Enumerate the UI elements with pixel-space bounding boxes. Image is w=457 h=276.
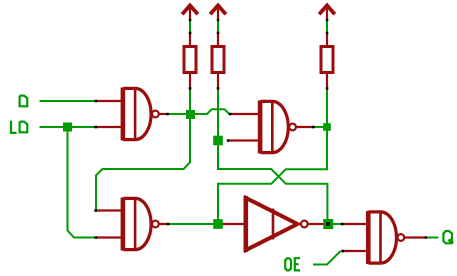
- pin-end dot U2 inB: [227, 139, 230, 142]
- pin-end dot VCC2 stem: [217, 19, 220, 22]
- node junction D (buffer out / U4 in): [323, 219, 333, 229]
- pin-end dot inside junction D: [326, 222, 330, 226]
- wire net A hop over net C to U2 input A: [190, 109, 229, 114]
- pin-end dot U2 inA: [229, 113, 232, 116]
- node junction F (U2 out / R3): [323, 123, 331, 131]
- pin-end dot U1 out: [166, 113, 169, 116]
- pin-end dot R1 bottom: [189, 87, 192, 90]
- power VCC arrow 3: [319, 5, 335, 19]
- resistor R3: [321, 47, 333, 73]
- pin-end dot U4 inB: [341, 250, 344, 253]
- pin U1 output: [159, 113, 167, 115]
- pin-end dot U3 out: [167, 223, 170, 226]
- power VCC arrow 1: [182, 5, 198, 19]
- pin R1 bottom: [189, 74, 191, 89]
- node junction on LD net: [63, 123, 72, 132]
- label LD : D: [20, 122, 28, 133]
- label D: [20, 96, 28, 107]
- pin-end dot R2 top: [217, 32, 220, 35]
- pin U4 output: [404, 236, 425, 238]
- label Q tail: [449, 239, 453, 243]
- wire net E from junction C up, crossing to right, up through junction F to R3: [218, 89, 327, 224]
- pin-end dot U4 inA: [341, 223, 344, 226]
- node junction C (U3 out / buffer in): [213, 219, 223, 229]
- wire LD net vertical to gate U3 input B: [68, 127, 97, 238]
- resistor R1: [184, 47, 196, 73]
- label OE : E: [295, 258, 300, 270]
- wire VCC stub above R3: [326, 20, 328, 33]
- pin-end dot R3 top: [326, 32, 329, 35]
- pin-end dot U3 inB: [94, 236, 97, 239]
- nand gate U1: [121, 88, 159, 141]
- pin U4 input B: [343, 250, 367, 252]
- pin U2 input B: [229, 139, 259, 141]
- resistor R2: [212, 47, 224, 73]
- pin R2 top: [217, 33, 219, 46]
- pin U3 input B: [97, 236, 122, 238]
- power VCC arrow 2: [210, 5, 226, 19]
- wire D net horizontal: [40, 100, 96, 102]
- pin-end dot R3 bottom: [326, 87, 329, 90]
- label Q: [443, 231, 452, 243]
- pin R1 top: [189, 33, 191, 46]
- wire net A vertical from R1 through junction A down and left to U3 input A: [96, 89, 190, 211]
- pin U5 buffer output: [308, 223, 324, 225]
- pin-end dot VCC1 stem: [189, 19, 192, 22]
- pin-end dot U2 out: [312, 126, 315, 129]
- pin U1 input B: [97, 126, 122, 128]
- pin R2 bottom: [217, 74, 219, 89]
- pin-end dot U4 out: [425, 236, 428, 239]
- pin-end dot VCC3 stem: [326, 19, 329, 22]
- pin R3 bottom: [326, 74, 328, 89]
- nand gate U4: [366, 211, 404, 264]
- pin U1 input A: [97, 100, 122, 102]
- pin-end dot U1 inB: [94, 126, 97, 129]
- pin U4 input A: [344, 223, 367, 225]
- pin-end dot U1 inA: [94, 100, 97, 103]
- wire junction D to U4 input A pin: [333, 223, 342, 225]
- node junction A (U1 out / R1 / feedback): [186, 110, 195, 119]
- pin-end dot R2 bottom: [217, 87, 220, 90]
- node junction B (R2 net): [213, 136, 223, 146]
- wire VCC stub above R1: [189, 20, 191, 33]
- nand gate U2: [258, 101, 296, 154]
- label LD : L: [11, 121, 17, 133]
- pin R3 top: [326, 33, 328, 46]
- pin U3 input A: [97, 209, 122, 211]
- wire U4 output to Q label: [426, 237, 439, 239]
- wire U3 output to junction C: [168, 223, 219, 225]
- wire net C from R2 through junction B down, crossing to right, down to junction D: [218, 89, 327, 224]
- pin U2 input A: [231, 113, 259, 115]
- tristate buffer U5: [244, 196, 308, 252]
- pin-end dot R1 top: [189, 32, 192, 35]
- pin U5 buffer input: [219, 223, 244, 225]
- pin U2 output: [295, 126, 313, 128]
- wire LD net horizontal: [40, 126, 96, 128]
- wire U2 output to junction F: [313, 126, 327, 128]
- wire U1 output to junction A: [167, 113, 191, 115]
- wire OE net with 45-degree rise to U4 input B: [313, 251, 341, 265]
- nand gate U3: [121, 198, 159, 251]
- pin-end dot U3 inA: [94, 209, 97, 212]
- label OE : O: [285, 258, 291, 270]
- pin U3 output: [159, 223, 168, 225]
- wire VCC stub above R2: [217, 20, 219, 33]
